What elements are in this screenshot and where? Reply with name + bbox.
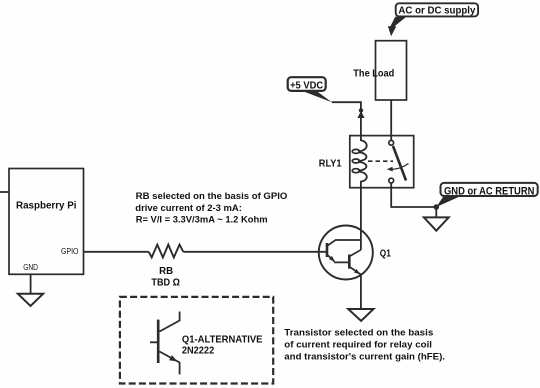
svg-text:GND: GND [23, 263, 38, 272]
Q1 inner transistor A emitter [328, 255, 350, 262]
wire relay contact to gnd node [391, 183, 436, 207]
relay coil [358, 136, 367, 188]
wire GPIO to resistor [84, 251, 149, 253]
transistor Q1-ALTERNATIVE base lead [150, 341, 158, 343]
+5 VDC callout [288, 77, 326, 91]
Q1 emitter B arrowhead [354, 269, 360, 274]
The Load box [376, 41, 407, 100]
svg-text:2N2222: 2N2222 [182, 344, 214, 356]
Q1 inner transistor B base bar [348, 255, 351, 269]
svg-text:R= V/I = 3.3V/3mA ~ 1.2 Kohm: R= V/I = 3.3V/3mA ~ 1.2 Kohm [136, 215, 268, 226]
wire load to relay contact [390, 100, 392, 140]
svg-text:Raspberry Pi: Raspberry Pi [16, 199, 77, 211]
resistor RB [149, 245, 184, 258]
relay contact bottom [389, 178, 394, 183]
svg-text:+5 VDC: +5 VDC [290, 81, 323, 92]
ground (Q1 emitter) [348, 309, 373, 321]
relay contact top [389, 140, 394, 145]
AC or DC supply callout tail [390, 17, 406, 27]
wire Q1 emitter to ground [360, 275, 362, 310]
svg-text:RB selected on the basis of GP: RB selected on the basis of GPIO [136, 191, 288, 202]
AC or DC supply callout [396, 3, 478, 16]
relay RLY1 box [350, 136, 414, 188]
wire left stub [0, 191, 9, 193]
svg-text:drive current of 2-3 mA:: drive current of 2-3 mA: [135, 203, 242, 214]
wire +5VDC to coil [332, 102, 361, 135]
transistor Q1-ALTERNATIVE emitter [160, 352, 180, 375]
+5 VDC callout tail [302, 91, 332, 103]
svg-text:AC or DC supply: AC or DC supply [398, 5, 475, 17]
dashed box Q1 alternative [120, 297, 273, 384]
svg-text:of current required for relay: of current required for relay coil [284, 340, 432, 351]
svg-text:Transistor selected on the bas: Transistor selected on the basis [284, 328, 433, 339]
wire relay coil to Q1 collector [360, 188, 362, 250]
svg-text:and transistor's current gain: and transistor's current gain (hFE). [284, 352, 445, 363]
transistor Q1-ALTERNATIVE emitter arrowhead [169, 355, 177, 361]
transistor Q1-ALTERNATIVE collector [160, 312, 180, 332]
Q1 inner transistor A base bar [326, 243, 329, 257]
relay dashed actuator line [368, 160, 393, 162]
svg-text:RB: RB [159, 265, 173, 277]
svg-text:RLY1: RLY1 [319, 158, 342, 170]
ground (Raspberry Pi) [18, 294, 43, 306]
svg-text:Q1: Q1 [380, 248, 391, 260]
wire GND to ground [30, 274, 32, 294]
wire node to ground [435, 207, 437, 217]
AC or DC supply arrowhead [388, 26, 396, 36]
Q1 inner transistor B collector [350, 250, 361, 256]
Q1 emitter A arrowhead [329, 256, 335, 262]
Q1 inner transistor A collector [328, 240, 361, 246]
current direction marker on +5V wire [359, 108, 363, 112]
svg-text:TBD Ω: TBD Ω [151, 276, 180, 288]
relay switch blade [393, 146, 406, 181]
GND or AC RETURN callout [441, 183, 538, 196]
Q1 inner transistor B emitter [350, 267, 361, 275]
GND or AC RETURN callout tail [436, 196, 462, 208]
transistor Q1-ALTERNATIVE base bar [157, 320, 160, 363]
node junction dot [434, 204, 440, 210]
svg-text:GPIO: GPIO [61, 247, 79, 256]
svg-text:The Load: The Load [353, 68, 394, 80]
relay actuation arrow [391, 164, 409, 170]
Raspberry Pi box [9, 169, 84, 275]
ground (AC return) [424, 217, 449, 230]
wire resistor to Q1 base [183, 251, 327, 253]
relay coil loops [352, 149, 359, 153]
transistor Q1 (darlington) circle [319, 226, 373, 280]
